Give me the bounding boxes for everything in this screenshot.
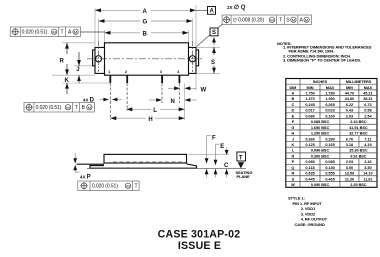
- ext G right: [192, 19, 194, 45]
- svg-text:2. VDD1: 2. VDD1: [301, 206, 316, 211]
- ext A left: [94, 8, 96, 46]
- right mounting tab: [196, 50, 199, 66]
- feature control frame bottom: [78, 181, 139, 191]
- svg-text:34.80: 34.80: [345, 97, 354, 101]
- svg-text:45.21: 45.21: [363, 91, 373, 95]
- svg-text:1.290 BSC: 1.290 BSC: [311, 132, 330, 136]
- svg-text:13.59: 13.59: [345, 172, 354, 176]
- dimension J: [74, 52, 92, 73]
- svg-text:0.085: 0.085: [325, 160, 335, 164]
- svg-text:MAX: MAX: [326, 86, 335, 90]
- svg-text:E: E: [220, 144, 224, 150]
- cap body rect: [105, 43, 189, 75]
- svg-text:A: A: [143, 9, 148, 15]
- svg-text:35.31: 35.31: [363, 97, 373, 101]
- leader to right hole: [197, 24, 223, 47]
- ext G left: [98, 19, 100, 45]
- dimension N: [149, 98, 197, 105]
- lead 3 dashed ext: [161, 83, 163, 103]
- svg-text:Q: Q: [291, 166, 294, 170]
- svg-text:4.19: 4.19: [364, 143, 371, 147]
- svg-text:3. VDD2: 3. VDD2: [301, 211, 316, 216]
- svg-text:3.00: 3.00: [346, 166, 353, 170]
- svg-text:PLANE: PLANE: [237, 174, 251, 179]
- dimension R: [60, 43, 96, 75]
- svg-text:4. RF OUTPUT: 4. RF OUTPUT: [301, 217, 328, 222]
- svg-text:W: W: [291, 183, 295, 187]
- left end plate: [95, 47, 105, 73]
- svg-text:B: B: [143, 31, 148, 37]
- feature control frame top right: [222, 15, 312, 25]
- left mounting tab: [93, 50, 95, 66]
- svg-text:G: G: [143, 20, 148, 26]
- svg-text:D: D: [292, 109, 295, 113]
- right hole centerline: [192, 41, 194, 72]
- feature control frame top left: [10, 27, 104, 37]
- svg-text:T: T: [135, 184, 138, 190]
- dimension A: [95, 8, 196, 14]
- feature control frame mid left: [24, 103, 94, 113]
- svg-text:0.090 BSC: 0.090 BSC: [311, 183, 330, 187]
- svg-text:MIN: MIN: [307, 86, 314, 90]
- right mounting hole: [189, 56, 195, 62]
- svg-text:1.390: 1.390: [325, 97, 334, 101]
- svg-text:M: M: [270, 17, 273, 22]
- datum A box: [196, 7, 216, 15]
- svg-text:6.22: 6.22: [346, 103, 353, 107]
- svg-text:M: M: [66, 105, 69, 110]
- pin numbers: [108, 69, 180, 74]
- svg-text:H: H: [292, 132, 295, 136]
- svg-text:G: G: [291, 126, 294, 130]
- svg-text:DIM: DIM: [289, 86, 296, 90]
- svg-text:A: A: [292, 91, 295, 95]
- svg-text:44.70: 44.70: [345, 91, 354, 95]
- svg-text:1.750: 1.750: [305, 91, 314, 95]
- dimension H: [110, 116, 184, 123]
- svg-text:1.370: 1.370: [305, 97, 314, 101]
- seating plane line: [87, 167, 246, 169]
- svg-text:0.465: 0.465: [325, 177, 335, 181]
- lead 1 dashed ext: [109, 83, 111, 120]
- svg-text:0.020 (0.51): 0.020 (0.51): [36, 105, 62, 111]
- svg-text:7.11: 7.11: [364, 137, 372, 141]
- svg-text:M: M: [126, 183, 129, 188]
- dimension B: [105, 31, 189, 37]
- dimension L: [126, 107, 184, 114]
- svg-text:0.265: 0.265: [325, 103, 335, 107]
- hidden lead dashed: [113, 161, 184, 163]
- svg-text:3.30: 3.30: [364, 166, 371, 170]
- svg-text:H: H: [148, 117, 152, 123]
- lead 3: [161, 75, 163, 83]
- svg-text:0.266: 0.266: [305, 137, 314, 141]
- svg-text:T: T: [279, 18, 282, 24]
- svg-text:0.58: 0.58: [364, 109, 372, 113]
- svg-text:11.81: 11.81: [363, 177, 373, 181]
- svg-text:0.125: 0.125: [305, 143, 315, 147]
- svg-text:2.54: 2.54: [364, 114, 372, 118]
- leads side bar: [77, 163, 105, 165]
- ext B left: [104, 30, 106, 42]
- svg-text:1.650 BSC: 1.650 BSC: [311, 126, 330, 130]
- svg-text:3.18: 3.18: [346, 143, 354, 147]
- svg-text:0.535: 0.535: [305, 172, 315, 176]
- svg-text:0.43: 0.43: [346, 109, 353, 113]
- left hole centerline: [98, 41, 100, 72]
- W/N right ext line: [184, 84, 186, 120]
- svg-text:N: N: [171, 99, 175, 105]
- svg-text:2.29 BSC: 2.29 BSC: [350, 183, 367, 187]
- svg-text:6.73: 6.73: [364, 103, 371, 107]
- svg-text:25.30 BSC: 25.30 BSC: [349, 149, 368, 153]
- dimension C: [188, 148, 229, 178]
- svg-text:0.445: 0.445: [305, 177, 315, 181]
- svg-text:N: N: [292, 154, 295, 158]
- svg-text:M: M: [53, 29, 56, 34]
- svg-text:M: M: [74, 29, 77, 34]
- lead 2: [126, 75, 128, 83]
- table row lines: [286, 96, 377, 182]
- svg-text:0.020 (0.51): 0.020 (0.51): [22, 30, 48, 36]
- svg-text:9.91 BSC: 9.91 BSC: [350, 154, 367, 158]
- svg-text:0.280: 0.280: [325, 137, 334, 141]
- svg-text:0.080: 0.080: [305, 160, 314, 164]
- dimension F: [205, 136, 216, 178]
- svg-text:R: R: [60, 59, 65, 65]
- svg-text:C: C: [292, 103, 295, 107]
- datum T box and seating plane: [236, 152, 253, 179]
- dimension W: [168, 86, 207, 93]
- dimension 4X P: [73, 153, 90, 181]
- svg-text:0.100: 0.100: [325, 114, 334, 118]
- cap side: [104, 154, 187, 163]
- datum S box with arrow: [210, 28, 218, 54]
- flange side: [90, 164, 197, 168]
- svg-text:CASE 301AP-02: CASE 301AP-02: [158, 229, 241, 241]
- lead 1: [109, 75, 111, 83]
- svg-text:0.245: 0.245: [305, 103, 315, 107]
- dimension E: [214, 144, 225, 178]
- svg-text:R: R: [292, 172, 295, 176]
- svg-text:M: M: [88, 105, 91, 110]
- lead 4: [179, 75, 181, 83]
- svg-text:T: T: [239, 155, 243, 161]
- svg-text:ISSUE E: ISSUE E: [178, 240, 221, 252]
- svg-text:L: L: [153, 108, 157, 114]
- svg-text:PIN 1. RF INPUT: PIN 1. RF INPUT: [293, 201, 323, 206]
- svg-text:T: T: [61, 30, 64, 36]
- svg-text:S: S: [211, 60, 215, 66]
- H right ext line: [195, 74, 197, 91]
- svg-text:2.16: 2.16: [364, 160, 371, 164]
- svg-text:11.30: 11.30: [345, 177, 354, 181]
- svg-text:0.130: 0.130: [325, 166, 334, 170]
- horizontal centerline: [87, 58, 203, 60]
- svg-text:2.03: 2.03: [346, 114, 353, 118]
- svg-text:M: M: [305, 17, 308, 22]
- svg-text:W: W: [201, 87, 207, 93]
- svg-text:J: J: [292, 137, 294, 141]
- svg-text:M: M: [292, 17, 295, 22]
- svg-text:STYLE 1:: STYLE 1:: [288, 196, 305, 201]
- svg-text:B: B: [292, 97, 295, 101]
- svg-text:32.77 BSC: 32.77 BSC: [349, 132, 368, 136]
- lead 2 dashed ext: [126, 83, 128, 111]
- svg-text:0.023: 0.023: [325, 109, 334, 113]
- svg-text:2.24 BSC: 2.24 BSC: [350, 120, 367, 124]
- svg-text:0.020 (0.51): 0.020 (0.51): [92, 184, 118, 190]
- svg-text:0.390 BSC: 0.390 BSC: [311, 154, 330, 158]
- left mounting hole: [95, 56, 101, 62]
- svg-text:0.080: 0.080: [305, 114, 314, 118]
- svg-text:A: A: [210, 9, 215, 15]
- svg-text:2.03: 2.03: [346, 160, 353, 164]
- svg-text:41.91 BSC: 41.91 BSC: [349, 126, 368, 130]
- svg-text:0.088 BSC: 0.088 BSC: [311, 120, 330, 124]
- table data: [291, 91, 373, 187]
- svg-text:J: J: [76, 67, 79, 73]
- lead 4 dashed ext: [178, 83, 180, 103]
- svg-text:1.780: 1.780: [325, 91, 334, 95]
- svg-text:0.996 BSC: 0.996 BSC: [311, 149, 330, 153]
- ext B right: [188, 30, 190, 42]
- dimension G: [99, 19, 193, 25]
- dimension K: [52, 75, 111, 94]
- svg-text:MIN: MIN: [346, 86, 353, 90]
- svg-text:0.555: 0.555: [325, 172, 335, 176]
- dimension S: [197, 47, 221, 73]
- ext A right: [195, 5, 197, 46]
- svg-text:F: F: [212, 136, 216, 142]
- svg-text:INCHES: INCHES: [313, 80, 328, 84]
- right end plate: [189, 47, 197, 73]
- svg-text:0.017: 0.017: [305, 109, 314, 113]
- svg-text:CASE: GROUND: CASE: GROUND: [295, 222, 325, 227]
- svg-text:T: T: [75, 105, 78, 111]
- svg-text:MAX: MAX: [364, 86, 373, 90]
- svg-text:2X ∅ Q: 2X ∅ Q: [227, 4, 246, 11]
- package body outline: [93, 43, 199, 75]
- svg-text:C: C: [224, 163, 229, 169]
- svg-text:3. DIMENSION “F” TO CENTER OF: 3. DIMENSION “F” TO CENTER OF LEADS.: [283, 58, 361, 63]
- svg-text:0.165: 0.165: [325, 143, 335, 147]
- svg-text:6.76: 6.76: [346, 137, 353, 141]
- svg-text:14.10: 14.10: [363, 172, 372, 176]
- svg-text:0.118: 0.118: [305, 166, 315, 170]
- svg-text:MILLIMETERS: MILLIMETERS: [346, 80, 372, 84]
- svg-text:∅ 0.008 (0.20): ∅ 0.008 (0.20): [233, 18, 265, 24]
- svg-text:K: K: [65, 78, 70, 84]
- svg-text:K: K: [292, 143, 295, 147]
- svg-text:S: S: [212, 30, 216, 36]
- dimension 4X D: [83, 98, 122, 104]
